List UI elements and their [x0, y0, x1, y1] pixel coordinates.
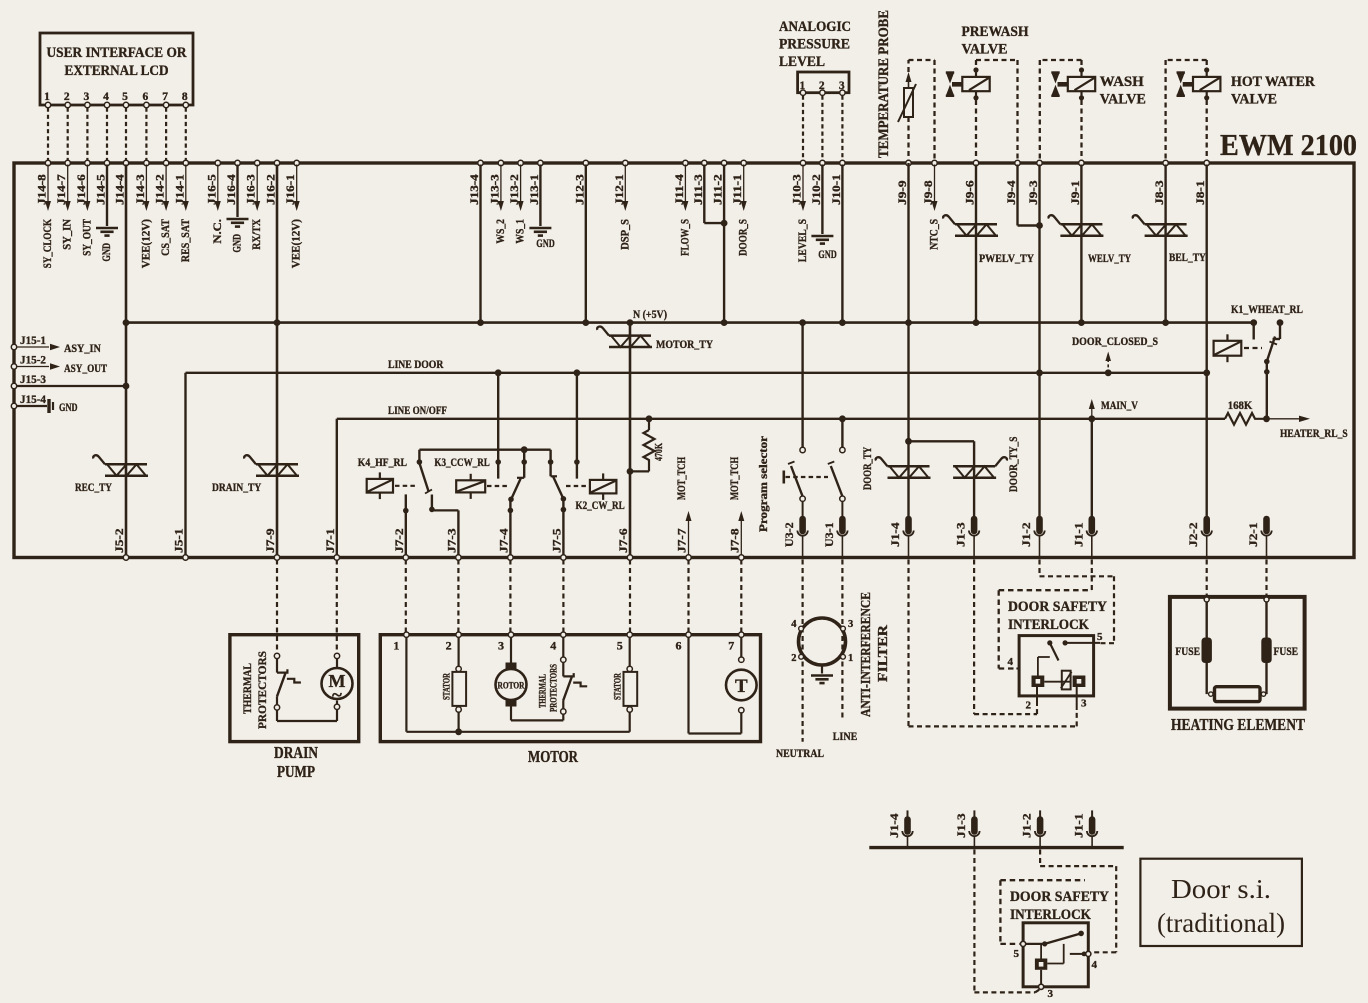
svg-text:ANTI-INTERFERENCE: ANTI-INTERFERENCE	[858, 592, 873, 717]
svg-text:VALVE: VALVE	[962, 42, 1008, 58]
svg-text:WS_2: WS_2	[495, 219, 507, 244]
svg-text:J1-3: J1-3	[956, 522, 968, 547]
svg-text:J11-1: J11-1	[732, 174, 744, 205]
svg-text:HOT WATER: HOT WATER	[1231, 74, 1315, 90]
svg-text:J14-6: J14-6	[76, 174, 88, 205]
svg-text:J7-6: J7-6	[618, 528, 630, 553]
svg-text:N.C.: N.C.	[212, 219, 224, 244]
svg-text:J2-1: J2-1	[1248, 522, 1260, 547]
svg-text:BEL_TY: BEL_TY	[1169, 252, 1206, 264]
svg-text:J1-1: J1-1	[1074, 813, 1086, 838]
svg-text:J7-2: J7-2	[394, 528, 406, 553]
svg-text:J15-4: J15-4	[20, 394, 46, 406]
svg-text:3: 3	[498, 639, 504, 653]
svg-text:J13-1: J13-1	[529, 174, 541, 205]
svg-text:LINE: LINE	[833, 731, 858, 743]
svg-text:1: 1	[393, 639, 399, 653]
svg-text:J11-4: J11-4	[674, 174, 686, 205]
svg-text:STATOR: STATOR	[614, 673, 624, 700]
svg-text:GND: GND	[59, 402, 78, 414]
svg-text:GND: GND	[818, 249, 837, 261]
svg-text:K4_HF_RL: K4_HF_RL	[358, 457, 407, 469]
svg-text:J15-3: J15-3	[20, 374, 46, 386]
svg-text:PWELV_TY: PWELV_TY	[979, 253, 1035, 265]
svg-text:6: 6	[676, 639, 682, 653]
svg-text:USER INTERFACE OR: USER INTERFACE OR	[47, 45, 187, 61]
svg-text:2: 2	[446, 639, 452, 653]
svg-text:LINE ON/OFF: LINE ON/OFF	[388, 405, 447, 417]
svg-text:LEVEL: LEVEL	[779, 54, 825, 70]
svg-text:K3_CCW_RL: K3_CCW_RL	[434, 457, 490, 469]
svg-text:J13-3: J13-3	[489, 174, 501, 205]
svg-text:5: 5	[617, 639, 623, 653]
svg-text:RX/TX: RX/TX	[251, 218, 263, 249]
svg-text:K2_CW_RL: K2_CW_RL	[576, 500, 625, 512]
svg-text:J14-7: J14-7	[56, 174, 68, 205]
svg-text:LEVEL_S: LEVEL_S	[797, 219, 809, 262]
svg-text:FUSE: FUSE	[1175, 646, 1200, 658]
svg-text:ASY_OUT: ASY_OUT	[64, 363, 107, 375]
svg-text:J10-1: J10-1	[831, 174, 843, 205]
svg-text:ROTOR: ROTOR	[498, 682, 525, 692]
svg-text:FUSE: FUSE	[1274, 646, 1299, 658]
svg-text:PREWASH: PREWASH	[962, 24, 1029, 40]
svg-text:EWM 2100: EWM 2100	[1220, 127, 1357, 162]
svg-text:4: 4	[103, 91, 109, 103]
svg-text:DOOR_TY_S: DOOR_TY_S	[1008, 437, 1020, 492]
svg-text:J12-3: J12-3	[574, 174, 586, 205]
svg-text:PUMP: PUMP	[277, 762, 315, 781]
svg-text:NTC_S: NTC_S	[929, 219, 941, 250]
svg-text:INTERLOCK: INTERLOCK	[1010, 907, 1092, 923]
svg-text:4: 4	[550, 639, 556, 653]
svg-text:470K: 470K	[653, 443, 665, 461]
svg-text:Door s.i.: Door s.i.	[1171, 874, 1271, 904]
svg-text:RES_SAT: RES_SAT	[180, 219, 192, 262]
svg-text:J7-7: J7-7	[677, 528, 689, 553]
svg-text:HEATING ELEMENT: HEATING ELEMENT	[1171, 715, 1305, 734]
svg-text:J2-2: J2-2	[1188, 522, 1200, 547]
svg-text:DOOR SAFETY: DOOR SAFETY	[1010, 889, 1109, 905]
svg-text:7: 7	[728, 639, 734, 653]
svg-text:ASY_IN: ASY_IN	[64, 343, 102, 355]
svg-text:J5-2: J5-2	[114, 528, 126, 553]
svg-text:J9-1: J9-1	[1070, 180, 1082, 205]
svg-text:J14-2: J14-2	[155, 174, 167, 205]
svg-text:DSP_S: DSP_S	[619, 219, 631, 250]
svg-text:J1-2: J1-2	[1022, 813, 1034, 838]
svg-text:4: 4	[1008, 656, 1014, 668]
svg-text:DOOR SAFETY: DOOR SAFETY	[1008, 599, 1107, 615]
svg-text:J15-2: J15-2	[20, 355, 46, 367]
svg-text:5: 5	[1014, 948, 1020, 960]
svg-text:J16-1: J16-1	[285, 174, 297, 205]
svg-text:VALVE: VALVE	[1231, 92, 1277, 108]
svg-text:VEE(12V): VEE(12V)	[291, 219, 303, 268]
svg-text:J7-9: J7-9	[265, 528, 277, 553]
svg-text:WS_1: WS_1	[515, 219, 527, 244]
svg-text:VEE(12V): VEE(12V)	[140, 219, 152, 268]
svg-text:7: 7	[162, 91, 168, 103]
svg-text:J16-5: J16-5	[206, 174, 218, 205]
svg-text:J7-3: J7-3	[446, 528, 458, 553]
svg-text:MOT_TCH: MOT_TCH	[729, 457, 741, 500]
svg-text:2: 2	[64, 91, 70, 103]
svg-text:J13-2: J13-2	[509, 174, 521, 205]
svg-text:DRAIN: DRAIN	[274, 743, 319, 762]
svg-text:INTERLOCK: INTERLOCK	[1008, 617, 1090, 633]
svg-text:2: 2	[791, 653, 796, 664]
svg-text:FILTER: FILTER	[875, 625, 890, 682]
svg-text:J13-4: J13-4	[469, 174, 481, 205]
svg-text:HEATER_RL_S: HEATER_RL_S	[1280, 428, 1348, 440]
svg-text:1: 1	[44, 91, 50, 103]
svg-text:MAIN_V: MAIN_V	[1101, 400, 1138, 412]
svg-text:J10-2: J10-2	[811, 174, 823, 205]
svg-text:J7-1: J7-1	[325, 528, 337, 553]
svg-text:J11-2: J11-2	[713, 174, 725, 205]
svg-text:J1-4: J1-4	[889, 813, 901, 838]
svg-text:J16-3: J16-3	[246, 174, 258, 205]
svg-text:THERMAL: THERMAL	[240, 663, 254, 714]
svg-text:J1-4: J1-4	[890, 522, 902, 547]
svg-text:J14-3: J14-3	[135, 174, 147, 205]
svg-text:CS_SAT: CS_SAT	[160, 219, 172, 256]
svg-text:4: 4	[791, 619, 797, 630]
svg-text:J10-3: J10-3	[792, 174, 804, 205]
svg-text:J11-3: J11-3	[693, 174, 705, 205]
svg-text:MOTOR: MOTOR	[528, 747, 579, 766]
svg-text:J1-1: J1-1	[1073, 522, 1085, 547]
svg-text:DOOR_S: DOOR_S	[738, 219, 750, 256]
svg-text:J1-3: J1-3	[956, 813, 968, 838]
svg-text:MOTOR_TY: MOTOR_TY	[656, 339, 714, 351]
svg-text:DOOR_CLOSED_S: DOOR_CLOSED_S	[1072, 336, 1158, 348]
svg-text:J9-6: J9-6	[965, 180, 977, 205]
svg-text:EXTERNAL LCD: EXTERNAL LCD	[65, 63, 169, 79]
svg-text:N (+5V): N (+5V)	[633, 309, 667, 321]
svg-text:(traditional): (traditional)	[1157, 908, 1285, 938]
svg-text:6: 6	[143, 91, 149, 103]
svg-text:3: 3	[1048, 988, 1054, 1000]
svg-text:Program selector: Program selector	[756, 435, 770, 532]
svg-text:J14-5: J14-5	[96, 174, 108, 205]
svg-text:2: 2	[1026, 700, 1032, 712]
svg-text:4: 4	[1092, 959, 1098, 971]
svg-text:3: 3	[1081, 698, 1087, 710]
svg-text:J7-4: J7-4	[498, 528, 510, 553]
svg-text:~: ~	[332, 685, 342, 706]
svg-text:3: 3	[84, 91, 90, 103]
svg-text:J8-1: J8-1	[1195, 180, 1207, 205]
svg-text:3: 3	[848, 619, 853, 630]
svg-text:J15-1: J15-1	[20, 335, 46, 347]
svg-text:THERMAL: THERMAL	[539, 674, 549, 708]
svg-text:PROTECTORS: PROTECTORS	[255, 651, 269, 729]
svg-text:K1_WHEAT_RL: K1_WHEAT_RL	[1231, 304, 1303, 316]
svg-text:MOT_TCH: MOT_TCH	[676, 457, 688, 500]
svg-text:8: 8	[182, 91, 188, 103]
svg-text:J5-1: J5-1	[174, 528, 186, 553]
svg-text:J14-8: J14-8	[37, 174, 49, 205]
svg-text:DOOR_TY: DOOR_TY	[862, 446, 874, 490]
svg-text:J16-4: J16-4	[226, 174, 238, 205]
svg-text:TEMPERATURE PROBE: TEMPERATURE PROBE	[876, 10, 892, 158]
svg-text:GND: GND	[232, 234, 244, 253]
svg-text:STATOR: STATOR	[443, 673, 453, 700]
svg-text:J9-9: J9-9	[897, 180, 909, 205]
svg-text:SY_CLOCK: SY_CLOCK	[42, 219, 54, 268]
svg-text:J7-8: J7-8	[729, 528, 741, 553]
svg-text:LINE DOOR: LINE DOOR	[388, 359, 444, 371]
svg-text:J14-1: J14-1	[174, 174, 186, 205]
svg-text:SY_OUT: SY_OUT	[81, 219, 93, 256]
svg-text:5: 5	[122, 91, 128, 103]
svg-text:GND: GND	[536, 238, 555, 250]
svg-text:U3-2: U3-2	[784, 522, 796, 547]
svg-text:J1-2: J1-2	[1021, 522, 1033, 547]
svg-text:J9-4: J9-4	[1006, 180, 1018, 205]
svg-text:PROTECTORS: PROTECTORS	[550, 664, 560, 712]
svg-text:1: 1	[848, 653, 853, 664]
svg-text:J7-5: J7-5	[551, 528, 563, 553]
svg-text:5: 5	[1097, 631, 1103, 643]
svg-text:GND: GND	[101, 243, 113, 262]
svg-text:J12-1: J12-1	[614, 174, 626, 205]
svg-text:VALVE: VALVE	[1100, 92, 1146, 108]
svg-text:FLOW_S: FLOW_S	[679, 219, 691, 256]
svg-text:J9-3: J9-3	[1028, 180, 1040, 205]
svg-text:REC_TY: REC_TY	[75, 482, 112, 494]
svg-text:WASH: WASH	[1100, 74, 1144, 90]
svg-text:PRESSURE: PRESSURE	[779, 37, 850, 53]
svg-text:U3-1: U3-1	[824, 522, 836, 547]
svg-text:DRAIN_TY: DRAIN_TY	[212, 482, 262, 494]
svg-text:T: T	[735, 676, 748, 697]
svg-text:SY_IN: SY_IN	[62, 218, 74, 249]
svg-text:ANALOGIC: ANALOGIC	[779, 19, 851, 35]
svg-text:NEUTRAL: NEUTRAL	[776, 748, 824, 760]
svg-text:WELV_TY: WELV_TY	[1088, 253, 1132, 265]
svg-text:168K: 168K	[1228, 400, 1253, 412]
svg-text:J8-3: J8-3	[1154, 180, 1166, 205]
